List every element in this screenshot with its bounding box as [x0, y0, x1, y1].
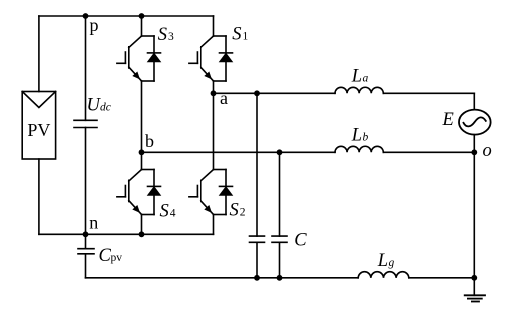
- label S3: [158, 25, 174, 45]
- svg-text:PV: PV: [27, 120, 50, 140]
- wire: Udc upper lead: [85, 16, 87, 120]
- svg-text:C: C: [294, 230, 307, 250]
- svg-text:4: 4: [170, 208, 176, 220]
- wire: node a to S2: [213, 93, 215, 169]
- wire: S1 emitter to node a: [213, 81, 215, 93]
- wire: top rail corner to S1: [213, 16, 215, 36]
- wire: S2 emitter to n rail: [213, 215, 215, 235]
- wire: ground stem: [473, 278, 475, 296]
- svg-text:n: n: [89, 213, 98, 233]
- wire: S3 emitter to node b: [141, 81, 143, 152]
- svg-text:dc: dc: [100, 101, 111, 113]
- wire: La to grid source E: [383, 92, 474, 94]
- svg-text:3: 3: [168, 31, 174, 43]
- capacitor C (branch 1): [250, 236, 265, 242]
- capacitor Cpv: [78, 249, 94, 254]
- svg-text:g: g: [389, 257, 395, 269]
- node: junction n rail / S4 leg: [139, 231, 145, 237]
- wire: bottom rail from Cpv to Lg: [86, 277, 359, 279]
- wire: C branch 2 upper lead (from phase b): [279, 152, 281, 236]
- PV source: [22, 92, 55, 160]
- node: junction top rail / S3 leg: [139, 13, 145, 19]
- node o: [471, 149, 477, 155]
- node n: [83, 231, 89, 237]
- wire: n rail: [39, 233, 214, 235]
- wire: Cpv lower lead to bottom rail: [85, 254, 87, 278]
- svg-text:b: b: [363, 132, 369, 144]
- node a: [211, 90, 217, 96]
- wire: Lg to ground node: [409, 277, 475, 279]
- node p: [83, 13, 89, 19]
- label Lg: [377, 251, 395, 271]
- node: C tap on phase-b wire: [277, 149, 283, 155]
- transistor S2 (IGBT with freewheel diode): [189, 170, 233, 215]
- capacitor C (branch 2): [272, 236, 287, 242]
- svg-text:pv: pv: [111, 252, 123, 264]
- transistor S4 (IGBT with freewheel diode): [117, 170, 161, 215]
- label S1: [232, 25, 248, 45]
- wire: C branch 2 lower lead: [279, 242, 281, 277]
- wire: C branch 1 lower lead: [256, 242, 258, 277]
- svg-text:S: S: [160, 202, 169, 222]
- wire: corner down to E source: [473, 93, 475, 109]
- svg-text:2: 2: [240, 207, 246, 219]
- wire: C branch 1 upper lead (from phase a): [256, 93, 258, 236]
- wire: node a to La: [214, 92, 336, 94]
- wire: Udc lower lead: [85, 128, 87, 235]
- label La: [351, 66, 369, 86]
- wire: Lb to node o: [383, 151, 474, 153]
- svg-text:a: a: [363, 72, 369, 84]
- svg-text:S: S: [158, 25, 167, 45]
- svg-text:L: L: [351, 126, 362, 146]
- wire: left drop from p rail to PV: [38, 16, 40, 92]
- svg-text:E: E: [442, 110, 454, 130]
- inductor Lb: [335, 146, 383, 152]
- wire: S4 emitter to n rail: [141, 215, 143, 235]
- wire: top rail p: [39, 15, 214, 17]
- node: C branch 2 on bottom rail: [277, 275, 283, 281]
- inductor La: [335, 87, 383, 93]
- wire: node b to Lb: [142, 151, 336, 153]
- node: C tap on phase-a wire: [254, 90, 260, 96]
- svg-text:L: L: [351, 66, 362, 86]
- svg-text:L: L: [377, 251, 388, 271]
- wire: Cpv upper lead: [85, 234, 87, 248]
- ground: [465, 295, 485, 301]
- wire: E source to node o: [473, 135, 475, 153]
- svg-text:1: 1: [243, 31, 249, 43]
- label Lb: [351, 126, 369, 146]
- label S2: [230, 201, 246, 221]
- transistor S1 (IGBT with freewheel diode): [189, 36, 233, 81]
- wire: top rail to S3: [141, 16, 143, 36]
- svg-text:b: b: [145, 131, 154, 151]
- AC source E: [459, 110, 491, 135]
- svg-text:S: S: [230, 201, 239, 221]
- transistor S3 (IGBT with freewheel diode): [117, 36, 161, 81]
- svg-text:S: S: [232, 25, 241, 45]
- wire: PV bottom to n rail: [38, 159, 40, 234]
- node: C branch 1 on bottom rail: [254, 275, 260, 281]
- capacitor Udc: [74, 120, 97, 127]
- svg-text:o: o: [483, 141, 492, 161]
- svg-text:a: a: [220, 88, 228, 108]
- svg-text:p: p: [90, 15, 99, 35]
- wire: node b to S4: [141, 152, 143, 169]
- inductor Lg: [358, 272, 409, 278]
- node b: [139, 149, 145, 155]
- label Udc: [87, 95, 111, 115]
- node: ground junction: [471, 275, 477, 281]
- label Cpv: [99, 246, 123, 266]
- label S4: [160, 202, 176, 222]
- wire: node o down to ground node: [473, 152, 475, 277]
